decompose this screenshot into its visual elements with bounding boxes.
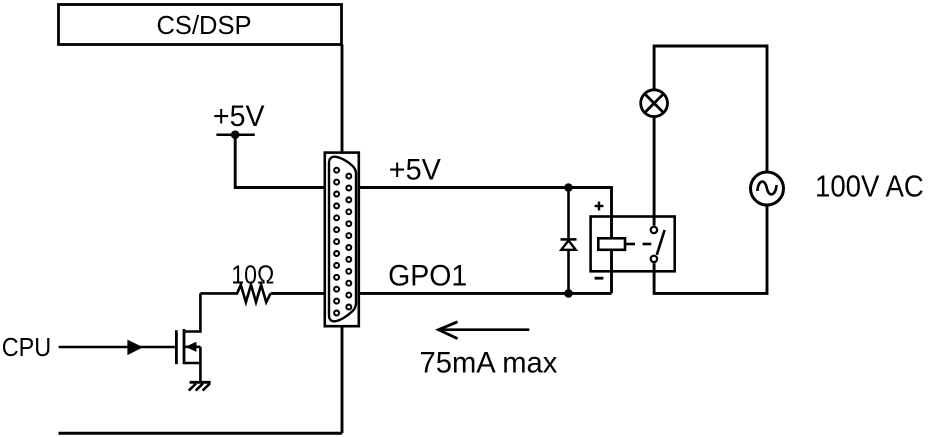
label + (coil polarity) — [595, 202, 604, 211]
connector J1 (DB-25) outer body — [325, 153, 359, 327]
label 75mA max — [420, 347, 558, 380]
label +5V (connector pin) — [389, 154, 441, 187]
resistor R1 10ohm — [200, 285, 270, 302]
svg-text:GPO1: GPO1 — [388, 260, 467, 293]
relay K1 box — [591, 217, 675, 272]
wire board bottom edge — [59, 432, 343, 435]
wire CS/DSP box to connector top — [341, 45, 344, 153]
connector J1 inner D-shell — [329, 157, 356, 322]
svg-text:CPU: CPU — [2, 332, 52, 362]
transistor Q1 drain stub — [184, 293, 200, 331]
arrowhead on CPU wire — [127, 340, 143, 356]
svg-text:+5V: +5V — [213, 100, 265, 133]
wire +5V supply to connector left — [235, 135, 325, 188]
relay K1 mechanical link (dashes) — [625, 243, 651, 246]
diode D1 cathode bar — [561, 238, 577, 241]
relay K1 contact circles — [651, 227, 657, 262]
transistor Q1 channel bar — [183, 329, 186, 364]
label GPO1 — [388, 260, 467, 293]
box CS/DSP — [59, 5, 342, 45]
relay K1 coil — [598, 238, 625, 250]
arrow 75mA direction — [439, 322, 530, 339]
lamp (circle with X) — [641, 90, 668, 117]
ground — [189, 382, 211, 390]
node junction dot +5V/diode — [564, 183, 573, 192]
node junction dot GPO1/diode — [564, 289, 573, 298]
wire lamp to switch — [653, 118, 656, 226]
svg-text:75mA max: 75mA max — [420, 347, 558, 380]
svg-text:+5V: +5V — [389, 154, 441, 187]
svg-text:CS/DSP: CS/DSP — [157, 10, 252, 40]
label - (coil polarity) — [595, 277, 604, 280]
transistor Q1 bulk arrow stub — [184, 342, 200, 352]
transistor Q1 source stub — [184, 362, 200, 365]
relay K1 contact lever — [657, 230, 665, 255]
label 100V AC — [815, 169, 924, 204]
diode D1 triangle — [561, 241, 575, 250]
wire AC top loop — [654, 46, 767, 172]
wire +5V right rail — [359, 188, 612, 294]
wire switch to AC bottom — [654, 205, 767, 293]
power +5V supply bar — [216, 133, 254, 136]
connector J1 pins right column (12) — [346, 174, 351, 310]
label CPU — [2, 332, 52, 362]
connector J1 pins left column (13) — [334, 168, 339, 316]
label CS/DSP — [157, 10, 252, 40]
diode D1 (flyback) wires — [567, 188, 570, 294]
wire connector bottom to board bottom — [341, 326, 344, 433]
power +5V supply label — [213, 100, 265, 133]
transistor Q1 (NMOS) gate bar — [175, 330, 178, 364]
wire CPU to gate — [59, 346, 177, 349]
wire GPO1 right rail — [359, 292, 612, 295]
wire GPO1 left (resistor to connector) — [271, 292, 325, 295]
label 10 ohm — [231, 259, 274, 289]
svg-text:10Ω: 10Ω — [231, 259, 274, 289]
svg-text:100V AC: 100V AC — [815, 169, 924, 204]
node +5V supply junction dot — [231, 130, 240, 139]
wire source to ground — [199, 347, 202, 383]
AC source (circle with sine) — [751, 172, 784, 205]
